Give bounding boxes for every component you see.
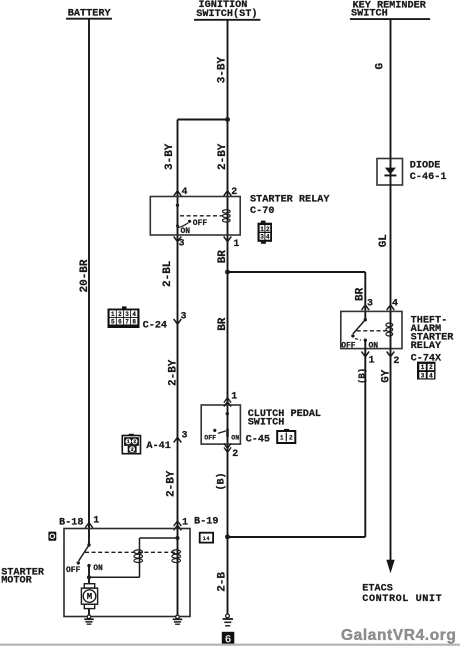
- svg-text:C-45: C-45: [246, 434, 270, 445]
- svg-text:1: 1: [369, 355, 375, 366]
- starter motor mechanical link (dashed): [85, 551, 175, 553]
- label CLUTCH PEDAL SWITCH C-45: [246, 409, 321, 446]
- svg-text:4: 4: [392, 299, 398, 310]
- relay box C-70: [150, 197, 240, 236]
- svg-text:SWITCH: SWITCH: [248, 418, 285, 429]
- svg-text:B-19: B-19: [194, 516, 218, 527]
- wire theft relay pin1 down to 2-B junction: [228, 340, 366, 537]
- clutch pedal switch box C-45: [201, 405, 240, 444]
- svg-text:3: 3: [182, 431, 188, 442]
- node B-19: [174, 516, 219, 530]
- svg-text:2-BY: 2-BY: [217, 143, 229, 170]
- svg-text:2: 2: [133, 439, 136, 445]
- ground motor: [84, 615, 94, 625]
- connector icon B-18: [48, 532, 56, 541]
- pin 3 of starter relay: [174, 237, 185, 250]
- label STARTER MOTOR: [1, 567, 45, 586]
- motor M symbol: [81, 584, 97, 615]
- theft relay coil: [386, 323, 393, 336]
- pin 2 of theft relay: [387, 352, 400, 367]
- label STARTER RELAY C-70: [250, 194, 330, 216]
- node KEY REMINDER SWITCH: [350, 1, 430, 20]
- svg-text:ON: ON: [181, 227, 191, 236]
- svg-text:2: 2: [393, 356, 399, 367]
- junction 2-B node: [225, 534, 230, 539]
- svg-text:M: M: [87, 592, 92, 602]
- starter relay coil: [223, 210, 231, 222]
- svg-text:(B): (B): [215, 472, 227, 490]
- svg-text:3: 3: [125, 311, 129, 318]
- svg-text:2-B: 2-B: [217, 572, 229, 592]
- svg-text:C-24: C-24: [143, 321, 167, 332]
- svg-text:1: 1: [233, 239, 239, 250]
- connector A-41 icon: [122, 434, 140, 454]
- svg-text:1: 1: [421, 364, 425, 371]
- svg-text:GalantVR4.org: GalantVR4.org: [341, 627, 456, 644]
- svg-text:OFF: OFF: [193, 219, 208, 228]
- svg-text:DIODE: DIODE: [410, 161, 441, 172]
- wire ON contact to motor: [88, 566, 90, 584]
- node B-18: [59, 516, 99, 529]
- starter motor hold-in coil: [172, 550, 181, 563]
- pin 1 of theft relay: [362, 352, 375, 367]
- starter motor pull-in coil: [134, 550, 143, 563]
- wire 20-BR battery to starter motor: [88, 19, 90, 545]
- starter relay switch contacts: [176, 204, 208, 236]
- connector icon C-74X: [417, 362, 436, 380]
- ground 2-B with ref 6: [222, 614, 235, 646]
- svg-text:BR: BR: [354, 287, 366, 301]
- svg-text:BR: BR: [217, 317, 229, 331]
- svg-text:3-BY: 3-BY: [216, 56, 228, 83]
- junction BR node: [225, 270, 230, 275]
- pin 2 of starter relay: [224, 187, 238, 198]
- node BATTERY: [66, 9, 112, 20]
- pin 1 of starter relay: [224, 237, 240, 251]
- pin 4 of theft relay: [387, 299, 398, 311]
- svg-text:1: 1: [111, 311, 115, 318]
- svg-text:3: 3: [181, 312, 187, 323]
- svg-text:1: 1: [280, 435, 284, 442]
- svg-text:4: 4: [266, 234, 270, 241]
- clutch pedal switch contacts: [204, 412, 239, 442]
- pin 2 of clutch pedal switch: [224, 443, 238, 460]
- svg-text:2: 2: [289, 435, 293, 442]
- svg-text:2: 2: [429, 364, 433, 371]
- pin 4 of starter relay: [174, 187, 188, 198]
- svg-text:8: 8: [132, 318, 136, 325]
- junction at branch: [225, 117, 230, 122]
- diode box C-46-1: [377, 159, 403, 186]
- svg-text:B-18: B-18: [59, 518, 83, 529]
- connector icon B-19: [200, 533, 213, 543]
- svg-text:OFF: OFF: [341, 342, 356, 351]
- svg-text:1: 1: [182, 517, 188, 528]
- svg-text:1: 1: [127, 439, 130, 445]
- svg-text:4: 4: [132, 311, 136, 318]
- theft relay mechanical link (dashed): [357, 330, 386, 332]
- starter motor switch: [66, 543, 103, 575]
- connector icon C-45: [277, 429, 295, 443]
- svg-text:1: 1: [260, 226, 264, 233]
- wire theft relay pin2 to ETACS: [390, 311, 392, 560]
- svg-text:2: 2: [231, 187, 237, 198]
- pin 1 of clutch pedal switch: [224, 391, 237, 406]
- svg-text:CONTROL UNIT: CONTROL UNIT: [362, 594, 442, 605]
- starter motor box: [64, 529, 190, 617]
- svg-text:MOTOR: MOTOR: [1, 576, 32, 587]
- svg-text:GL: GL: [378, 234, 390, 248]
- svg-text:3: 3: [367, 299, 373, 310]
- svg-text:2-BY: 2-BY: [165, 470, 177, 497]
- connector C-24 icon: [108, 306, 140, 328]
- svg-text:3: 3: [131, 447, 134, 453]
- svg-text:2: 2: [118, 311, 122, 318]
- junction coil split: [175, 536, 179, 540]
- svg-text:ON: ON: [231, 435, 239, 442]
- bottom scan band: [0, 644, 460, 646]
- wire BR junction to theft relay: [228, 272, 366, 320]
- theft-alarm starter relay box C-74X: [341, 311, 402, 348]
- arrow to ETACS control unit: [386, 560, 394, 574]
- label ETACS CONTROL UNIT: [362, 584, 442, 605]
- svg-text:STARTER RELAY: STARTER RELAY: [250, 194, 330, 205]
- svg-text:C-70: C-70: [250, 206, 274, 217]
- connector A-41 pin 3 arrow: [174, 431, 188, 443]
- diode symbol: [384, 168, 396, 177]
- svg-text:6: 6: [118, 318, 122, 325]
- svg-text:RELAY: RELAY: [411, 341, 442, 352]
- svg-text:C-46-1: C-46-1: [410, 172, 447, 183]
- svg-text:20-BR: 20-BR: [79, 259, 91, 292]
- connector C-24 pin 3 arrow: [174, 312, 187, 325]
- svg-text:2: 2: [266, 226, 270, 233]
- wire branch to relay pin 4: [178, 120, 228, 617]
- svg-text:OFF: OFF: [66, 566, 81, 575]
- svg-text:1: 1: [231, 391, 237, 402]
- svg-text:7: 7: [125, 318, 129, 325]
- svg-text:ON: ON: [369, 342, 379, 351]
- theft relay switch: [341, 318, 378, 350]
- wire 3-BY ignition switch down: [227, 20, 229, 615]
- svg-text:4: 4: [429, 372, 433, 379]
- svg-text:BR: BR: [217, 250, 229, 264]
- svg-text:2: 2: [232, 449, 238, 460]
- svg-text:3: 3: [421, 372, 425, 379]
- svg-text:1: 1: [93, 516, 99, 527]
- ground coil: [173, 615, 183, 625]
- svg-text:3: 3: [179, 239, 185, 250]
- svg-text:(B): (B): [357, 368, 367, 384]
- starter relay mechanical link (dashed): [180, 215, 222, 217]
- pin 3 of theft relay: [362, 299, 374, 311]
- svg-text:3-BY: 3-BY: [164, 143, 176, 170]
- svg-text:2-BY: 2-BY: [168, 359, 180, 386]
- label THEFT-ALARM STARTER RELAY C-74X: [411, 315, 455, 364]
- node IGNITION SWITCH(ST): [194, 0, 260, 20]
- label DIODE C-46-1: [410, 161, 447, 184]
- svg-text:A-41: A-41: [146, 441, 170, 452]
- svg-text:GY: GY: [381, 369, 393, 383]
- svg-text:SWITCH(ST): SWITCH(ST): [196, 8, 257, 20]
- svg-text:14: 14: [203, 536, 210, 542]
- wire coil return: [89, 538, 178, 577]
- svg-text:OFF: OFF: [204, 435, 216, 442]
- connector icon C-70: [258, 221, 273, 244]
- junction motor/coil: [87, 575, 91, 579]
- svg-text:3: 3: [260, 234, 264, 241]
- svg-text:SWITCH: SWITCH: [351, 8, 388, 19]
- svg-text:2-BL: 2-BL: [162, 260, 174, 287]
- svg-text:G: G: [375, 63, 387, 70]
- svg-text:4: 4: [182, 187, 188, 198]
- svg-text:ON: ON: [93, 564, 103, 573]
- svg-text:5: 5: [111, 318, 115, 325]
